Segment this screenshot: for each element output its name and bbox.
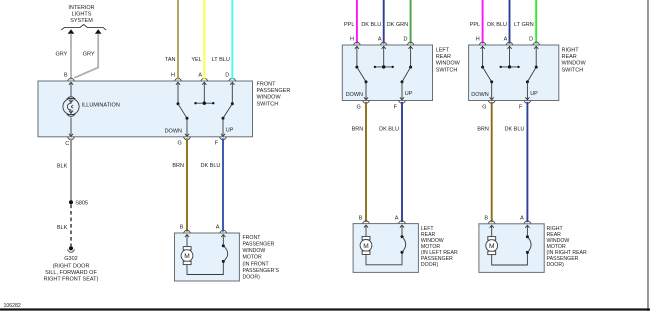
left rear motor terminal A cup xyxy=(399,220,406,223)
illumination lamp top cap xyxy=(67,97,74,99)
right rear window switch label xyxy=(562,48,587,74)
motor M3 bottom wire xyxy=(492,252,528,265)
right rear common bar xyxy=(501,66,519,68)
svg-text:BRN: BRN xyxy=(477,127,489,133)
svg-text:B: B xyxy=(180,225,184,231)
right rear terminal F cup xyxy=(524,101,531,104)
wire YEL to terminal A xyxy=(203,0,205,80)
motor terminal B arrow xyxy=(185,235,189,247)
wire LT BLU to terminal D xyxy=(231,0,233,80)
right rear terminal D arrow xyxy=(534,46,538,67)
svg-text:WINDOW: WINDOW xyxy=(562,61,587,67)
motor terminal A arrow xyxy=(221,235,225,246)
right rear terminal H cup xyxy=(479,42,486,45)
switch blade D to UP contact xyxy=(223,104,232,119)
svg-text:106282: 106282 xyxy=(4,303,21,309)
right rear switch blade to UP contact xyxy=(527,67,536,82)
common bar left node xyxy=(194,102,196,104)
left rear breaker upper node xyxy=(401,235,404,238)
right rear common bar center node xyxy=(508,65,511,68)
motor M1 bottom wire xyxy=(187,261,223,274)
breaker lower node xyxy=(222,260,225,263)
svg-text:GRY: GRY xyxy=(55,52,67,58)
right rear motor terminal B cup xyxy=(488,221,495,224)
svg-text:A: A xyxy=(216,225,220,231)
left rear switch blade to DOWN contact xyxy=(357,67,366,82)
motor M1 body xyxy=(181,250,193,262)
svg-text:G: G xyxy=(357,104,361,110)
left rear terminal D arrow xyxy=(409,46,413,67)
right rear terminal A cup xyxy=(506,42,513,45)
wire DK BLU to left rear A xyxy=(383,0,385,44)
illumination lamp lower wire with arrow xyxy=(69,118,73,137)
common bar right node xyxy=(212,102,214,104)
svg-text:PASSENGER’S: PASSENGER’S xyxy=(243,268,280,274)
switch contact node UP xyxy=(222,117,225,120)
svg-text:M: M xyxy=(489,243,495,250)
breaker upper node xyxy=(222,244,225,247)
right rear wire DOWN contact to G xyxy=(490,82,494,100)
svg-text:H: H xyxy=(350,37,354,43)
svg-text:UP: UP xyxy=(530,91,538,97)
right rear wire UP contact to F xyxy=(525,82,529,100)
left rear window switch label xyxy=(436,48,461,74)
svg-text:M: M xyxy=(363,243,369,250)
svg-text:FRONT: FRONT xyxy=(243,235,262,241)
terminal G cup xyxy=(184,137,191,140)
wire DK BLU left rear F to motor A xyxy=(401,102,403,222)
svg-text:REAR: REAR xyxy=(562,54,577,60)
svg-text:A: A xyxy=(378,37,382,43)
svg-text:DOOR): DOOR) xyxy=(243,275,261,281)
svg-text:DOWN: DOWN xyxy=(471,92,488,98)
left rear wire DOWN contact to G xyxy=(364,82,368,100)
terminal B arrow xyxy=(69,82,73,96)
svg-text:RIGHT FRONT SEAT): RIGHT FRONT SEAT) xyxy=(44,277,99,283)
svg-text:D: D xyxy=(529,37,533,43)
motor M3 brush bottom xyxy=(488,251,496,254)
right rear terminal H arrow xyxy=(481,46,485,67)
motor M1 brush top xyxy=(183,247,191,250)
right rear common bar left node xyxy=(500,66,502,68)
switch pivot node D xyxy=(231,102,234,105)
terminal D arrow xyxy=(230,82,234,104)
svg-text:REAR: REAR xyxy=(436,54,451,60)
wire BRN terminal G to front motor B xyxy=(186,138,188,231)
svg-text:SILL, FORWARD OF: SILL, FORWARD OF xyxy=(45,270,97,276)
left rear motor terminal B arrow xyxy=(364,225,368,236)
circuit breaker arc xyxy=(223,246,227,262)
terminal D cup xyxy=(229,78,236,81)
svg-text:S805: S805 xyxy=(75,201,88,207)
motor M2 bottom wire xyxy=(366,252,402,265)
svg-text:(RIGHT DOOR: (RIGHT DOOR xyxy=(53,263,90,269)
left rear terminal A cup xyxy=(380,42,387,45)
svg-text:D: D xyxy=(404,37,408,43)
wire LT GRN to right rear D xyxy=(535,0,537,44)
svg-text:WINDOW: WINDOW xyxy=(257,95,282,101)
right rear switch pivot node D xyxy=(535,66,538,69)
switch blade H to DOWN contact xyxy=(178,104,187,119)
ground G302 terminal cup xyxy=(68,250,75,253)
switch pivot node H xyxy=(177,102,180,105)
svg-text:DK BLU: DK BLU xyxy=(361,22,381,28)
arrow into interior lights system (right) xyxy=(95,29,102,34)
front passenger window switch box xyxy=(38,81,253,137)
wire PPL to left rear H xyxy=(356,0,358,44)
svg-text:LT GRN: LT GRN xyxy=(514,22,534,28)
svg-text:GRY: GRY xyxy=(83,52,95,58)
wire BLK from terminal C to splice S805 xyxy=(70,138,72,202)
front passenger window motor label xyxy=(243,235,280,281)
wire DK BLU terminal F to front motor A xyxy=(222,138,224,231)
brace over interior lights arrows xyxy=(61,25,106,31)
motor terminal A cup xyxy=(220,230,227,233)
svg-text:A: A xyxy=(395,215,399,221)
right rear window motor label xyxy=(547,226,588,268)
svg-text:H: H xyxy=(171,73,175,79)
svg-text:SYSTEM: SYSTEM xyxy=(70,18,93,24)
svg-text:WINDOW: WINDOW xyxy=(436,61,461,67)
svg-text:DK BLU: DK BLU xyxy=(201,163,221,169)
terminal H cup xyxy=(175,78,182,81)
svg-text:INTERIOR: INTERIOR xyxy=(68,5,94,11)
splice S805 xyxy=(69,200,73,204)
svg-text:LIGHTS: LIGHTS xyxy=(72,11,92,17)
right rear motor terminal A arrow xyxy=(525,225,529,237)
left rear switch blade to UP contact xyxy=(402,67,411,82)
left rear breaker lower node xyxy=(401,251,404,254)
switch contact node DOWN xyxy=(186,117,189,120)
svg-text:F: F xyxy=(519,104,523,110)
svg-text:DOOR): DOOR) xyxy=(421,262,439,268)
motor M3 body xyxy=(486,240,498,252)
left rear terminal F cup xyxy=(399,101,406,104)
wire GRY left (to terminal B) xyxy=(70,34,72,80)
motor M2 brush top xyxy=(362,236,370,239)
left rear window switch box xyxy=(342,45,432,101)
wire DK GRN to left rear D xyxy=(410,0,412,44)
right rear circuit breaker arc xyxy=(527,237,531,253)
left rear circuit breaker arc xyxy=(402,237,406,253)
left rear terminal H arrow xyxy=(355,46,359,67)
svg-text:G302: G302 xyxy=(64,256,77,262)
left rear terminal A arrow xyxy=(382,46,386,67)
illumination lamp arrowhead lower xyxy=(69,111,73,114)
left rear motor terminal A arrow xyxy=(400,225,404,237)
left rear common bar xyxy=(375,66,393,68)
svg-text:WINDOW: WINDOW xyxy=(243,248,266,254)
left rear switch pivot node D xyxy=(409,66,412,69)
svg-text:BRN: BRN xyxy=(352,127,364,133)
svg-text:F: F xyxy=(394,104,398,110)
svg-text:B: B xyxy=(484,216,488,222)
svg-text:BRN: BRN xyxy=(172,163,184,169)
svg-text:SWITCH: SWITCH xyxy=(562,67,584,73)
illumination lamp bulb xyxy=(63,99,79,115)
wire UP contact to terminal F xyxy=(221,118,225,136)
left rear motor terminal B cup xyxy=(363,220,370,223)
right rear motor terminal B arrow xyxy=(490,225,494,236)
wire PPL to right rear H xyxy=(482,0,484,44)
frame bottom border xyxy=(0,308,650,310)
wire DK BLU to right rear A xyxy=(509,0,511,44)
svg-text:G: G xyxy=(178,140,182,146)
left rear DOWN contact node xyxy=(365,80,368,83)
right rear window switch box xyxy=(469,45,559,101)
svg-text:BLK: BLK xyxy=(57,225,68,231)
wire DK BLU right rear F to motor A xyxy=(526,102,528,222)
left rear common bar left node xyxy=(374,66,376,68)
terminal B cup xyxy=(68,78,75,81)
svg-text:DK BLU: DK BLU xyxy=(379,127,399,133)
svg-text:DK BLU: DK BLU xyxy=(505,127,525,133)
svg-text:(IN FRONT: (IN FRONT xyxy=(243,261,270,267)
left rear common bar right node xyxy=(392,66,394,68)
common bar xyxy=(196,102,214,104)
frame right border xyxy=(647,0,649,311)
right rear switch blade to DOWN contact xyxy=(483,67,492,82)
illumination lamp bottom cap xyxy=(67,115,74,117)
svg-text:UP: UP xyxy=(226,128,234,134)
left rear wire UP contact to F xyxy=(400,82,404,100)
svg-text:PPL: PPL xyxy=(470,22,480,28)
svg-text:PPL: PPL xyxy=(344,22,354,28)
svg-text:PASSENGER: PASSENGER xyxy=(257,88,291,94)
svg-text:RIGHT: RIGHT xyxy=(562,48,580,54)
left rear terminal H cup xyxy=(353,42,360,45)
motor M3 brush top xyxy=(488,237,496,240)
left rear common bar center node xyxy=(382,65,385,68)
wire BRN left rear G to motor B xyxy=(365,102,367,222)
wire BLK dashed from S805 to G302 xyxy=(70,205,72,247)
motor M1 brush bottom xyxy=(183,261,191,264)
svg-text:DOWN: DOWN xyxy=(165,129,182,135)
terminal C cup xyxy=(68,137,75,140)
terminal H arrow xyxy=(176,82,180,104)
terminal A cup xyxy=(201,78,208,81)
svg-text:A: A xyxy=(504,37,508,43)
front passenger window switch label xyxy=(257,82,291,108)
left rear terminal G cup xyxy=(363,101,370,104)
svg-text:UP: UP xyxy=(405,91,413,97)
left rear window motor label xyxy=(421,226,458,268)
wire BRN right rear G to motor B xyxy=(491,102,493,222)
right rear window motor box xyxy=(479,224,544,273)
illumination lamp arrowhead upper xyxy=(69,100,73,103)
common bar center node xyxy=(203,102,206,105)
svg-text:LT BLU: LT BLU xyxy=(212,57,230,63)
svg-text:DOWN: DOWN xyxy=(346,92,363,98)
left rear terminal D cup xyxy=(407,42,414,45)
svg-text:PASSENGER: PASSENGER xyxy=(243,242,275,248)
left rear window motor box xyxy=(353,224,418,273)
terminal F cup xyxy=(220,137,227,140)
motor M2 brush bottom xyxy=(362,251,370,254)
svg-text:DOOR): DOOR) xyxy=(547,262,565,268)
svg-text:LEFT: LEFT xyxy=(436,48,450,54)
left rear UP contact node xyxy=(401,80,404,83)
right rear breaker lower node xyxy=(526,251,529,254)
svg-text:H: H xyxy=(476,37,480,43)
motor terminal B cup xyxy=(184,230,191,233)
svg-text:F: F xyxy=(215,140,219,146)
right rear terminal D cup xyxy=(533,42,540,45)
right rear motor terminal A cup xyxy=(524,221,531,224)
svg-text:TAN: TAN xyxy=(165,57,176,63)
ground G302 node xyxy=(69,246,73,250)
right rear DOWN contact node xyxy=(490,80,493,83)
illumination lamp filament xyxy=(67,99,73,115)
right rear UP contact node xyxy=(526,80,529,83)
svg-text:A: A xyxy=(198,73,202,79)
svg-text:B: B xyxy=(359,215,363,221)
terminal A arrow xyxy=(202,82,206,103)
svg-text:SWITCH: SWITCH xyxy=(257,101,279,107)
arrow into interior lights system (left) xyxy=(68,29,75,34)
svg-text:MOTOR: MOTOR xyxy=(243,255,262,261)
svg-text:C: C xyxy=(65,141,69,147)
svg-text:M: M xyxy=(184,253,190,260)
motor M2 body xyxy=(360,240,372,252)
svg-text:G: G xyxy=(482,104,486,110)
svg-text:BLK: BLK xyxy=(57,163,68,169)
front passenger window motor box xyxy=(175,233,240,281)
svg-text:B: B xyxy=(64,73,68,79)
right rear switch pivot node H xyxy=(481,66,484,69)
right rear terminal A arrow xyxy=(507,46,511,67)
svg-text:DK BLU: DK BLU xyxy=(487,22,507,28)
svg-text:SWITCH: SWITCH xyxy=(436,67,458,73)
wire TAN to terminal H xyxy=(177,0,179,80)
left rear switch pivot node H xyxy=(355,66,358,69)
right rear terminal G cup xyxy=(488,101,495,104)
svg-text:D: D xyxy=(225,73,229,79)
wire GRY right (merges at terminal B) xyxy=(74,34,98,78)
svg-text:FRONT: FRONT xyxy=(257,82,277,88)
right rear breaker upper node xyxy=(526,235,529,238)
svg-text:YEL: YEL xyxy=(191,57,201,63)
svg-text:ILLUMINATION: ILLUMINATION xyxy=(82,103,120,109)
svg-text:A: A xyxy=(520,216,524,222)
wire DOWN contact to terminal G xyxy=(185,118,189,136)
right rear common bar right node xyxy=(517,66,519,68)
svg-text:DK GRN: DK GRN xyxy=(387,22,408,28)
